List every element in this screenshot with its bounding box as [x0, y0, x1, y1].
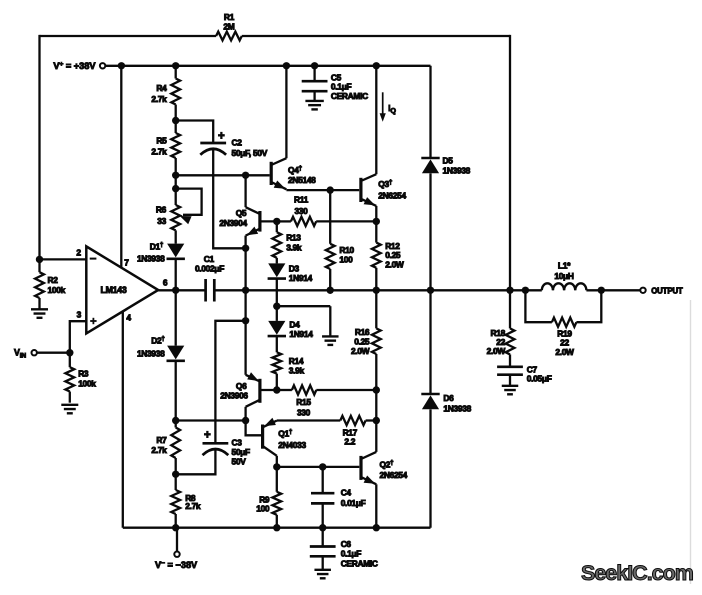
- wire R18 top lead: [509, 290, 511, 328]
- label L1 value: [554, 260, 574, 281]
- label Q2: [380, 459, 395, 469]
- watermark SeekIC.com: [581, 561, 693, 585]
- svg-text:L1*: L1*: [558, 260, 571, 270]
- label pin 6: [163, 277, 168, 287]
- wire C5 bottom lead: [313, 91, 315, 101]
- wire pin 3 input: [70, 321, 87, 353]
- label iQ: [388, 104, 396, 115]
- wire D2 bottom lead: [175, 362, 177, 421]
- capacitor C6: [310, 547, 336, 557]
- svg-text:2.7k: 2.7k: [151, 147, 167, 157]
- wire D6 bottom lead: [429, 409, 431, 527]
- label Q4 part: [288, 175, 316, 185]
- wire R4 bottom lead: [175, 105, 177, 121]
- svg-text:C4: C4: [341, 487, 352, 497]
- scan artifact line: [690, 300, 692, 584]
- svg-text:+: +: [218, 130, 225, 142]
- junction V+/C5: [311, 62, 318, 69]
- label V- = -38V: [155, 560, 198, 570]
- wire R11 left lead: [277, 220, 291, 222]
- transistor Q5 2N3904: [246, 175, 277, 248]
- svg-text:Q6: Q6: [236, 381, 247, 391]
- svg-text:R6: R6: [156, 205, 167, 215]
- svg-text:10μH: 10μH: [554, 271, 574, 281]
- node D2/R7/Q1-base junction: [172, 417, 179, 424]
- wire C2 bottom lead: [213, 149, 245, 248]
- transistor Q1 2N4033: [246, 418, 277, 467]
- resistor R19: [552, 318, 577, 327]
- terminal VIN: [32, 350, 37, 355]
- svg-text:7: 7: [124, 258, 129, 268]
- wire output vertical rail to C3 node: [244, 290, 246, 321]
- wire R11 right lead: [316, 220, 376, 222]
- svg-text:D6: D6: [443, 393, 454, 403]
- capacitor C2: [200, 143, 226, 155]
- label Q2 part: [380, 470, 408, 480]
- wire R4 top lead: [175, 66, 177, 79]
- ground R2: [31, 309, 48, 318]
- svg-text:CERAMIC: CERAMIC: [331, 91, 368, 101]
- label Q5 part: [219, 218, 247, 228]
- label R7 value: [151, 435, 167, 455]
- label Q3: [378, 179, 393, 189]
- ground C7: [502, 386, 519, 395]
- wire R9 top lead: [276, 467, 278, 492]
- label C4 value: [341, 487, 366, 507]
- svg-text:R5: R5: [156, 136, 167, 146]
- svg-text:2.0W: 2.0W: [555, 347, 574, 357]
- wire R17 left lead: [277, 419, 340, 421]
- ground C6: [314, 570, 331, 579]
- svg-text:OUTPUT: OUTPUT: [651, 286, 683, 295]
- resistor R9: [272, 492, 281, 515]
- wire pin 2 input: [40, 258, 87, 260]
- label C2 value 2: [232, 148, 268, 158]
- svg-text:100k: 100k: [48, 285, 66, 295]
- wire D6 top lead: [429, 290, 431, 394]
- wire R15 left lead: [277, 389, 292, 391]
- svg-text:R3: R3: [78, 368, 89, 378]
- svg-text:R11: R11: [294, 195, 309, 205]
- junction V- rail/C4-C6: [319, 524, 326, 531]
- wire C6 top lead: [322, 528, 324, 547]
- label C1 value 2: [195, 263, 224, 273]
- wire R5 top lead: [175, 121, 177, 134]
- svg-text:100: 100: [256, 504, 270, 514]
- resistor R5: [171, 133, 180, 158]
- node inverting input/R2: [36, 256, 43, 263]
- ground C5: [305, 101, 323, 110]
- svg-text:Q1†: Q1†: [278, 429, 293, 439]
- wire C4 top lead: [322, 467, 324, 493]
- resistor R14: [272, 352, 281, 373]
- junction Q6 collector/Q1 base: [242, 417, 249, 424]
- wire R16 node to R17 node: [375, 390, 377, 421]
- wire D2-to-Q1 base row: [176, 419, 246, 421]
- op-amp plus input sign: [90, 318, 96, 324]
- junction rail/R12-R16: [373, 287, 380, 294]
- junction Q5 base/R13/R11: [273, 218, 280, 225]
- wire R13 bottom lead: [276, 258, 278, 264]
- wire D4 bottom lead: [276, 337, 278, 352]
- svg-text:1N914: 1N914: [289, 329, 313, 339]
- svg-text:R1: R1: [224, 12, 235, 22]
- label R2 value: [48, 275, 66, 295]
- junction V- rail/R8: [172, 524, 179, 531]
- node VIN/R3: [66, 349, 73, 356]
- svg-text:R15: R15: [296, 397, 311, 407]
- label R9 value: [256, 494, 270, 513]
- svg-text:V− = −38V: V− = −38V: [155, 560, 198, 570]
- label C6 value: [341, 539, 378, 569]
- inductor L1: [542, 283, 587, 290]
- wire R9 bottom lead: [276, 515, 278, 528]
- diode D6: [421, 394, 439, 409]
- svg-text:100k: 100k: [78, 379, 96, 389]
- label Q6: [236, 381, 247, 391]
- wire R10 bottom lead: [329, 269, 331, 290]
- label D1 value: [137, 254, 165, 264]
- svg-text:VIN: VIN: [14, 348, 26, 360]
- label D6 value: [443, 393, 471, 413]
- resistor R7: [171, 428, 180, 459]
- capacitor C1: [206, 279, 215, 302]
- wire right frame vertical: [509, 35, 511, 290]
- wire R5 bottom lead: [175, 158, 177, 175]
- label R1 value: [223, 12, 234, 32]
- junction Q1 collector/R9/C4 row: [273, 463, 280, 470]
- wire R15 right lead: [316, 389, 376, 391]
- svg-text:2.0W: 2.0W: [351, 346, 370, 356]
- resistor R2: [35, 272, 44, 298]
- junction C4 top: [319, 463, 326, 470]
- label Q4: [288, 165, 303, 175]
- label D4 value: [289, 320, 313, 340]
- resistor R15: [292, 385, 316, 394]
- svg-text:6: 6: [163, 277, 168, 287]
- svg-text:1N3938: 1N3938: [443, 403, 471, 413]
- wire C4 bottom lead: [322, 503, 324, 527]
- svg-text:3.9k: 3.9k: [289, 366, 305, 376]
- junction rail/R10: [327, 287, 334, 294]
- resistor R10: [326, 244, 335, 269]
- svg-text:Q5: Q5: [236, 208, 247, 218]
- svg-text:+: +: [204, 430, 211, 442]
- resistor R12: [372, 243, 381, 268]
- wire D3 bottom lead: [276, 279, 278, 306]
- wire R6 top lead: [175, 175, 177, 205]
- label D3 value: [289, 264, 313, 284]
- wire R6 wiper loop: [176, 189, 202, 215]
- wire R3 top lead: [69, 353, 71, 368]
- svg-text:1N3938: 1N3938: [137, 254, 165, 264]
- label pin 4: [126, 313, 131, 323]
- svg-text:100: 100: [339, 254, 353, 264]
- diode D5: [421, 158, 439, 173]
- wire R10 top lead: [329, 190, 331, 244]
- wire R2 bottom lead: [38, 298, 40, 309]
- svg-text:2.7k: 2.7k: [151, 445, 167, 455]
- junction rail/R1-R18: [506, 287, 513, 294]
- wire D3/D4 midpoint to ground: [277, 305, 331, 307]
- label R4 value: [151, 83, 167, 104]
- resistor R11: [291, 217, 316, 226]
- wire R7 top lead: [175, 421, 177, 428]
- svg-text:2.0W: 2.0W: [487, 346, 506, 356]
- node R7/R8/C3 junction: [172, 471, 179, 478]
- wire op-amp pin 7 supply: [120, 66, 122, 268]
- junction V+/Q4 collector: [283, 62, 290, 69]
- wire Q4 base line: [176, 174, 270, 176]
- svg-text:2N3904: 2N3904: [219, 218, 247, 228]
- svg-text:33: 33: [157, 216, 166, 226]
- svg-text:330: 330: [297, 408, 311, 418]
- arrow R6 wiper: [180, 216, 192, 224]
- node op-amp output/D1/D2: [172, 287, 179, 294]
- node R4/R5 junction: [172, 117, 179, 124]
- label C3 plus: [204, 430, 211, 442]
- capacitor C3: [203, 443, 229, 455]
- label R6 value: [156, 205, 167, 226]
- op-amp minus input sign: [90, 258, 97, 260]
- wire R17 right lead: [366, 419, 377, 421]
- wire R16 bottom lead: [375, 354, 377, 389]
- label VIN: [14, 348, 26, 360]
- wire mid-ground stem: [329, 306, 331, 336]
- capacitor C5: [302, 81, 328, 91]
- current arrow iQ: [380, 92, 386, 122]
- wire Q1 collector to Q2 base: [277, 466, 360, 468]
- label OUTPUT: [651, 286, 683, 295]
- wire R19 loop left: [525, 290, 552, 322]
- svg-text:2.0W: 2.0W: [385, 260, 404, 270]
- svg-text:1N3938: 1N3938: [137, 349, 165, 359]
- wire output rail right of L1: [586, 289, 640, 291]
- wire R18 bottom lead: [509, 354, 511, 366]
- diode D1: [167, 244, 185, 259]
- label C2 value: [232, 138, 243, 148]
- label Q3 part: [378, 190, 406, 200]
- svg-text:0.05μF: 0.05μF: [527, 374, 552, 384]
- resistor R6 (pot): [171, 205, 180, 230]
- wire D1 bottom lead: [175, 260, 177, 291]
- wire VIN lead: [37, 352, 70, 354]
- junction C3/output vertical: [242, 317, 249, 324]
- wire Q4 emitter to Q3 base: [286, 189, 359, 191]
- wire R2 top lead: [38, 259, 40, 272]
- transistor Q6 2N3906: [246, 372, 277, 420]
- wire op-amp output: [158, 289, 206, 291]
- svg-text:Q2†: Q2†: [380, 459, 395, 469]
- diode D4: [268, 321, 286, 336]
- resistor R3: [65, 367, 74, 391]
- resistor R16: [372, 328, 381, 354]
- diode D3: [268, 263, 286, 278]
- label pin 2: [76, 247, 81, 257]
- resistor R17: [340, 416, 365, 425]
- label C2 plus: [218, 130, 225, 142]
- wire output rail: [214, 289, 542, 291]
- wire op-amp pin 4 supply: [122, 312, 124, 528]
- capacitor C4: [311, 493, 334, 503]
- label R18 value: [487, 328, 506, 356]
- svg-text:R2: R2: [48, 275, 59, 285]
- junction C2/output vertical: [242, 245, 249, 252]
- label Q1: [278, 429, 293, 439]
- wire R19 loop right: [576, 290, 601, 322]
- junction rail/Q5-Q6 vertical: [242, 287, 249, 294]
- svg-text:1N914: 1N914: [289, 273, 313, 283]
- label pin 3: [77, 309, 82, 319]
- label R3 value: [78, 368, 96, 388]
- junction rail/L1-R19 right: [598, 287, 605, 294]
- label R12 value: [385, 241, 404, 270]
- label R14 value: [289, 356, 305, 375]
- svg-text:CERAMIC: CERAMIC: [341, 558, 378, 568]
- capacitor C7: [497, 367, 523, 375]
- wire R12 bottom lead: [375, 268, 377, 291]
- wire R7 bottom lead: [175, 458, 177, 474]
- junction rail/L1-R19 left: [522, 287, 529, 294]
- wire R1 top right segment: [242, 35, 510, 37]
- resistor R13: [272, 232, 281, 258]
- label D2: [151, 336, 165, 346]
- svg-text:D4: D4: [289, 320, 300, 330]
- svg-text:D3: D3: [289, 264, 300, 274]
- wire C7 bottom lead: [509, 375, 511, 386]
- label Q1 part: [278, 440, 306, 450]
- label C7 value: [527, 365, 552, 384]
- label D2 value: [137, 349, 165, 359]
- wire R13 top lead: [276, 221, 278, 232]
- label LM143: [101, 285, 127, 295]
- junction V- rail/Q2 emitter: [373, 524, 380, 531]
- svg-text:LM143: LM143: [101, 285, 127, 295]
- label D1: [150, 242, 164, 252]
- junction V+/pin7: [118, 62, 125, 69]
- label D5 value: [443, 156, 471, 176]
- label Q5: [236, 208, 247, 218]
- svg-text:0.01μF: 0.01μF: [341, 498, 366, 508]
- svg-text:3: 3: [77, 309, 82, 319]
- wire V- terminal stem: [176, 528, 178, 552]
- transistor Q3 2N6254: [361, 66, 376, 222]
- wire R6 bottom lead: [175, 230, 177, 243]
- svg-text:2.7k: 2.7k: [185, 501, 201, 511]
- op-amp U1 LM143: [86, 246, 158, 333]
- svg-text:2N4033: 2N4033: [278, 440, 306, 450]
- ground D3/D4 midpoint: [322, 336, 339, 345]
- node R6 wiper tap: [172, 185, 179, 192]
- label Q6 part: [220, 391, 248, 401]
- resistor R8: [171, 490, 180, 514]
- junction V+/Q3 collector: [373, 62, 380, 69]
- svg-text:R7: R7: [156, 435, 167, 445]
- svg-text:3.9k: 3.9k: [286, 242, 302, 252]
- svg-text:1N3938: 1N3938: [443, 166, 471, 176]
- svg-text:C2: C2: [232, 138, 243, 148]
- svg-text:Q4†: Q4†: [288, 165, 303, 175]
- label C1 value: [204, 254, 215, 264]
- label R5 value: [151, 136, 167, 157]
- svg-text:C6: C6: [341, 539, 352, 549]
- label C3 value: [232, 438, 251, 467]
- terminal V-: [174, 552, 179, 557]
- wire V- rail: [123, 527, 431, 529]
- junction V- rail/R9: [273, 524, 280, 531]
- junction rail/D5-D6: [427, 287, 434, 294]
- label C5 value: [331, 72, 368, 101]
- svg-text:0.002μF: 0.002μF: [195, 263, 224, 273]
- junction R11/Q3 emitter/R12: [373, 218, 380, 225]
- wire D4 top lead: [276, 306, 278, 321]
- resistor R18: [506, 328, 515, 354]
- svg-text:iQ: iQ: [388, 104, 396, 115]
- svg-text:50μF, 50V: 50μF, 50V: [232, 148, 268, 158]
- transistor Q4 2N5148: [271, 66, 286, 190]
- label V+ = +38V: [53, 61, 96, 71]
- svg-text:2M: 2M: [223, 22, 234, 32]
- junction Q5 collector/Q4 base: [242, 172, 249, 179]
- junction emitter row/R10: [327, 186, 334, 193]
- svg-text:D1†: D1†: [150, 242, 164, 252]
- wire R8 bottom lead: [175, 514, 177, 528]
- wire output vertical C3 node to Q6 emitter: [244, 321, 246, 375]
- wire left frame vertical: [38, 35, 40, 260]
- wire C3 top vertical: [215, 321, 245, 444]
- wire R14 bottom lead: [276, 374, 278, 390]
- svg-text:R4: R4: [156, 83, 167, 93]
- svg-text:50V: 50V: [232, 456, 247, 466]
- wire C3 bottom jog: [176, 450, 216, 475]
- resistor R4: [171, 79, 180, 105]
- wire C2 top jog: [176, 121, 214, 144]
- junction R17/Q2 collector: [373, 417, 380, 424]
- svg-text:4: 4: [126, 313, 131, 323]
- svg-text:V+ = +38V: V+ = +38V: [53, 61, 96, 71]
- wire V+ rail: [105, 65, 431, 67]
- label R13 value: [286, 233, 302, 253]
- svg-text:2: 2: [76, 247, 81, 257]
- svg-text:SeekIC.com: SeekIC.com: [581, 561, 693, 585]
- junction R16/R15: [373, 386, 380, 393]
- svg-text:D2†: D2†: [151, 336, 165, 346]
- terminal V+: [100, 63, 105, 68]
- label R17 value: [343, 427, 358, 446]
- wire C6 bottom lead: [322, 556, 324, 569]
- label R8 value: [185, 493, 201, 511]
- svg-text:2.7k: 2.7k: [151, 94, 167, 104]
- svg-text:D5: D5: [443, 156, 454, 166]
- wire D5 top lead: [429, 66, 431, 158]
- label R16 value: [351, 327, 370, 356]
- label R19 value: [555, 328, 574, 356]
- wire R16 top lead: [375, 290, 377, 328]
- svg-text:Q3†: Q3†: [378, 179, 393, 189]
- wire D5 bottom lead: [429, 173, 431, 290]
- svg-text:2N6254: 2N6254: [380, 470, 408, 480]
- svg-text:2N3906: 2N3906: [220, 391, 248, 401]
- wire R3 bottom lead: [69, 392, 71, 403]
- resistor R1: [216, 32, 242, 41]
- label R11 value: [294, 195, 309, 217]
- svg-text:R13: R13: [286, 233, 301, 243]
- ground R3: [61, 405, 78, 414]
- wire output vertical C2 node to rail: [244, 248, 246, 290]
- svg-text:2.2: 2.2: [344, 437, 355, 447]
- svg-text:0.1μF: 0.1μF: [341, 549, 362, 559]
- label R10 value: [339, 245, 354, 264]
